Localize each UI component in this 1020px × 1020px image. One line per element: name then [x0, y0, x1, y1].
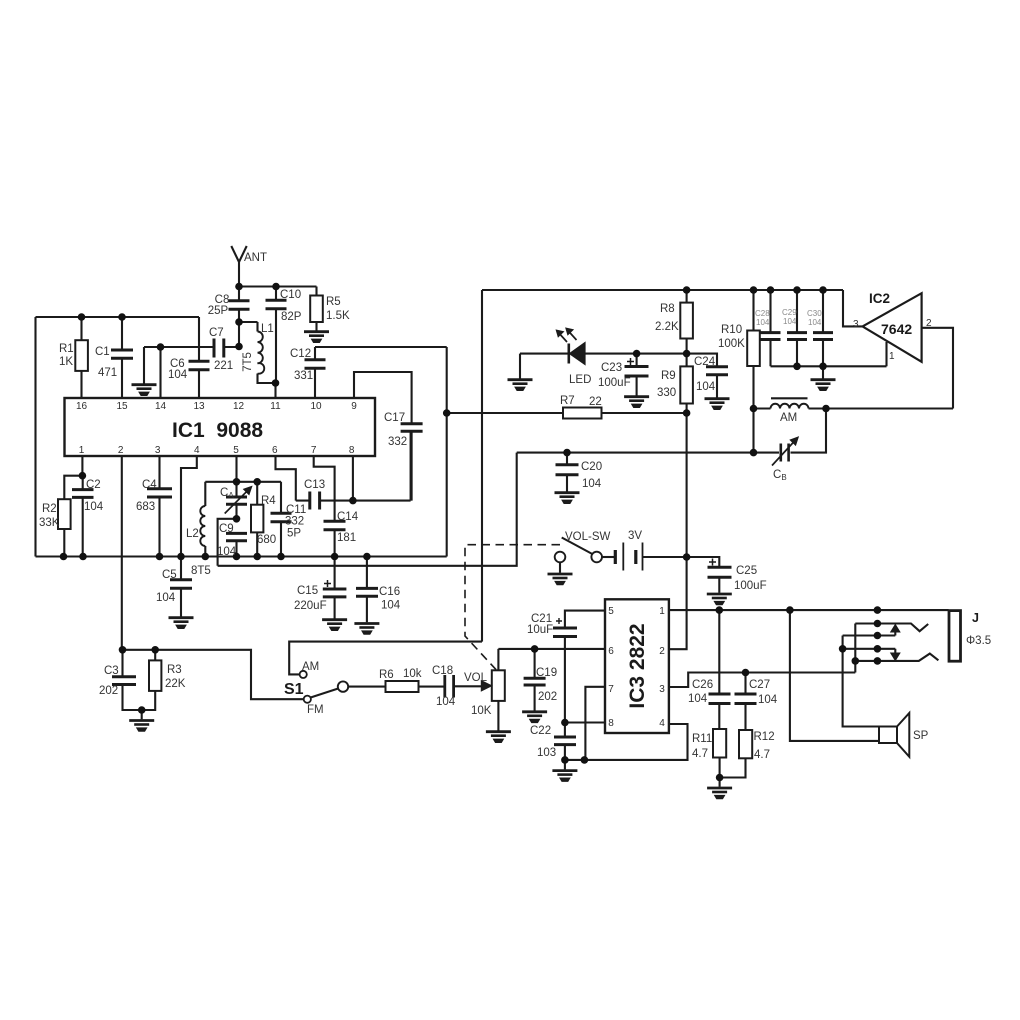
ground VOL pot [486, 732, 511, 743]
svg-text:7T5: 7T5 [242, 352, 254, 372]
svg-text:C17: C17 [384, 412, 405, 424]
switch S1 [300, 671, 349, 703]
potentiometer VOL [492, 649, 505, 731]
svg-text:C4: C4 [142, 479, 157, 491]
ground C19 [522, 712, 547, 723]
svg-text:3V: 3V [628, 530, 642, 542]
svg-text:3: 3 [659, 684, 665, 695]
wire jack rows3+4 common down to speaker [843, 636, 879, 727]
svg-text:14: 14 [155, 401, 167, 412]
wire IC1 bottom rail y=556.5 [36, 555, 447, 557]
capacitor C27 [735, 673, 757, 731]
svg-text:104: 104 [808, 318, 822, 327]
capacitor C5 [170, 557, 192, 617]
resistor R5 [310, 287, 323, 331]
svg-text:104: 104 [156, 592, 176, 604]
capacitor C23 electrolytic [625, 354, 649, 396]
capacitor C18 [445, 675, 454, 698]
svg-text:104: 104 [688, 693, 708, 705]
svg-text:R4: R4 [261, 495, 276, 507]
svg-text:C19: C19 [536, 667, 557, 679]
wire VOL-SW ground contact [559, 562, 561, 573]
resistor R8 [680, 290, 693, 354]
svg-text:82P: 82P [281, 311, 302, 323]
wire LED row y=353.6 [520, 353, 687, 355]
wire C7 row y=347 [144, 346, 239, 348]
svg-text:22: 22 [589, 396, 602, 408]
svg-text:6: 6 [272, 445, 278, 456]
wire IC3 pin8 [565, 721, 605, 723]
wire ground stub left [143, 347, 145, 384]
svg-text:SP: SP [913, 730, 929, 742]
svg-text:R10: R10 [721, 324, 742, 336]
ground C24 [705, 399, 730, 410]
svg-text:330: 330 [657, 387, 676, 399]
wire pin8 [352, 456, 354, 501]
plus C21 [556, 618, 562, 624]
svg-text:R5: R5 [326, 296, 341, 308]
wire top-left rail y=317 [36, 316, 200, 318]
svg-text:C24: C24 [694, 356, 716, 368]
svg-text:R8: R8 [660, 303, 675, 315]
capacitor C9 [226, 533, 247, 540]
capacitor C29 [787, 290, 807, 366]
svg-text:10K: 10K [471, 705, 492, 717]
wire IC3 pin1 output rail y=610.1 [669, 609, 949, 611]
svg-text:R3: R3 [167, 664, 182, 676]
svg-text:VOL-SW: VOL-SW [565, 531, 611, 543]
wire AM coil row y=408.5 [754, 407, 954, 409]
wire pin9 up and over to C17 [354, 372, 412, 424]
svg-text:100K: 100K [718, 338, 745, 350]
wire pin1 node to R2 [64, 476, 82, 500]
capacitor C10 [266, 287, 287, 384]
svg-text:4.7: 4.7 [692, 748, 708, 760]
wire C9 bypass loop [218, 453, 517, 566]
wire supply node to C25 [687, 557, 720, 567]
capacitor C16 [356, 557, 378, 623]
wire AM select y=641.6 [289, 642, 482, 675]
svg-text:R7: R7 [560, 395, 575, 407]
svg-text:100uF: 100uF [734, 580, 767, 592]
wire jack row3 contact with break arrow up [843, 625, 900, 636]
svg-text:1: 1 [659, 606, 665, 617]
ground R5 [304, 332, 329, 343]
svg-text:104: 104 [696, 381, 716, 393]
svg-text:C29: C29 [782, 308, 797, 317]
svg-text:ANT: ANT [244, 252, 267, 264]
svg-text:1.5K: 1.5K [326, 310, 350, 322]
wire AGC row y=413 [447, 412, 687, 414]
svg-text:104: 104 [381, 600, 401, 612]
svg-text:C13: C13 [304, 479, 325, 491]
wire C13 row to C17 column [353, 431, 411, 500]
ground C25 [707, 594, 732, 605]
svg-text:221: 221 [214, 360, 233, 372]
resistor R9 [680, 354, 693, 413]
svg-text:22K: 22K [165, 678, 186, 690]
svg-text:R12: R12 [754, 731, 775, 743]
wire R6 to C18 [419, 686, 445, 688]
LED D1 [556, 328, 585, 365]
resistor R10 [747, 290, 760, 409]
svg-text:IC2: IC2 [869, 291, 890, 306]
svg-text:AM: AM [780, 412, 797, 424]
svg-text:C16: C16 [379, 586, 400, 598]
capacitor C28 [761, 290, 781, 366]
wire IC2 pin1 [885, 342, 887, 366]
wire supply drop x=482 to AM switch wire [481, 290, 483, 642]
ground C3/R3 [129, 710, 154, 731]
wire C18 to VOL wiper arrow [454, 681, 492, 691]
svg-text:8: 8 [608, 718, 614, 729]
svg-text:2.2K: 2.2K [655, 321, 679, 333]
svg-text:11: 11 [270, 401, 281, 412]
resistor R6 [386, 681, 419, 692]
ground LED [508, 380, 533, 391]
wire top supply rail y=290 [482, 289, 843, 291]
capacitor C20 [556, 453, 579, 492]
svg-text:C9: C9 [219, 523, 234, 535]
ground C22 [552, 760, 577, 782]
svg-text:R2: R2 [42, 503, 57, 515]
wire CB row y=452.6 [517, 409, 826, 453]
svg-text:181: 181 [337, 532, 356, 544]
wire pin7 route [314, 456, 335, 521]
ground VOL-SW [548, 574, 573, 585]
ground C5 [169, 618, 194, 629]
inductor L2 [200, 482, 205, 557]
capacitor C25 electrolytic [708, 559, 732, 593]
wire speaker return from output rail [790, 610, 879, 741]
capacitor C8 [229, 287, 250, 323]
svg-text:VOL: VOL [464, 672, 488, 684]
wire VOL top to IC3 pin6 [498, 648, 605, 650]
wire IC2 bypass bottom rail y=366.3 [771, 365, 887, 367]
svg-text:C2: C2 [86, 479, 101, 491]
resistor R12 [720, 730, 753, 778]
wire jack row4 contact with break arrow down [843, 649, 900, 661]
svg-text:FM: FM [307, 704, 324, 716]
svg-text:4.7: 4.7 [754, 749, 770, 761]
svg-text:104: 104 [84, 501, 104, 513]
wire pin6 route [276, 456, 296, 501]
svg-text:103: 103 [537, 747, 556, 759]
ground C7 node [132, 385, 157, 396]
svg-text:683: 683 [136, 501, 155, 513]
wire S1 to R6 [348, 686, 385, 688]
capacitor C2 [72, 476, 94, 557]
svg-text:C1: C1 [95, 346, 110, 358]
svg-text:104: 104 [217, 546, 237, 558]
svg-text:5: 5 [233, 445, 239, 456]
svg-text:471: 471 [98, 367, 117, 379]
inductor AM coil with core [771, 398, 809, 408]
wire IC3 pin7 down [585, 687, 605, 760]
svg-text:202: 202 [99, 685, 118, 697]
svg-text:C22: C22 [530, 725, 551, 737]
resistor R3 [142, 650, 162, 710]
svg-text:IC1 9088: IC1 9088 [172, 419, 263, 442]
svg-text:7: 7 [311, 445, 317, 456]
svg-text:7: 7 [608, 684, 614, 695]
resistor R1 [75, 317, 88, 398]
capacitor C26 [709, 610, 731, 729]
svg-text:4: 4 [194, 445, 200, 456]
svg-text:8: 8 [349, 445, 355, 456]
svg-text:8T5: 8T5 [191, 565, 211, 577]
wire pin1 [81, 456, 83, 476]
svg-text:C15: C15 [297, 585, 318, 597]
svg-text:C26: C26 [692, 679, 713, 691]
capacitor C13 [296, 492, 353, 510]
svg-text:IC3 2822: IC3 2822 [626, 623, 649, 708]
svg-text:C20: C20 [581, 461, 602, 473]
svg-text:AM: AM [302, 661, 319, 673]
svg-text:104: 104 [783, 317, 797, 326]
dashed mechanical link VOL-SW to VOL pot [465, 545, 560, 670]
capacitor C3 [112, 650, 142, 710]
wire IC3 pin5 to C21 [565, 611, 605, 628]
svg-text:R9: R9 [661, 370, 676, 382]
capacitor C1 [111, 317, 133, 398]
svg-text:C14: C14 [337, 511, 359, 523]
svg-text:104: 104 [168, 369, 188, 381]
svg-text:C10: C10 [280, 289, 301, 301]
svg-text:2: 2 [118, 445, 124, 456]
wire battery plus to supply node [643, 556, 687, 558]
inductor L1 [258, 322, 276, 383]
wire C8 junction down to C7 node [238, 322, 240, 347]
capacitor C15 [323, 557, 347, 619]
wire C12 top to x=446.7 [315, 346, 447, 348]
wire signal ground bus y=759.9 [565, 724, 688, 760]
svg-text:9: 9 [351, 401, 357, 412]
svg-text:L1: L1 [261, 323, 274, 335]
svg-text:1K: 1K [59, 356, 73, 368]
svg-text:C18: C18 [432, 665, 453, 677]
capacitor C14 [324, 521, 346, 556]
svg-text:331: 331 [294, 370, 313, 382]
svg-text:R11: R11 [692, 733, 712, 745]
svg-text:10uF: 10uF [527, 624, 553, 636]
capacitor C30 [813, 290, 833, 366]
capacitor C19 [524, 649, 546, 711]
ground IC2 caps [811, 366, 836, 390]
svg-text:1: 1 [889, 351, 895, 362]
svg-text:5: 5 [608, 606, 614, 617]
svg-text:C30: C30 [807, 309, 822, 318]
wire jack row5 contact [854, 654, 938, 661]
svg-text:13: 13 [193, 401, 205, 412]
resistor R11 [713, 729, 726, 778]
svg-text:10k: 10k [403, 668, 422, 680]
svg-text:25P: 25P [208, 305, 229, 317]
svg-text:C28: C28 [755, 309, 770, 318]
svg-text:3: 3 [155, 445, 161, 456]
wire pin11 [274, 383, 276, 398]
wire pin4 route [181, 456, 197, 557]
svg-text:C25: C25 [736, 565, 757, 577]
ground C20 [555, 493, 580, 504]
plus C15 [324, 580, 331, 587]
wire switch to battery [602, 556, 615, 558]
wire jack rows2+5 common down to pin3 bus [854, 624, 856, 673]
wire R10 bottom to CB node [752, 409, 754, 453]
resistor R2 [58, 499, 71, 556]
resistor R7 [563, 408, 602, 419]
capacitor C21 electrolytic [553, 628, 577, 723]
svg-text:R1: R1 [59, 343, 74, 355]
svg-text:332: 332 [388, 436, 407, 448]
capacitor C6 on pin13 column [189, 317, 210, 398]
variable capacitor CB [772, 437, 798, 466]
svg-text:6: 6 [608, 646, 614, 657]
wire left vertical x=35.5 [34, 317, 36, 557]
svg-text:2: 2 [659, 646, 665, 657]
svg-text:100uF: 100uF [598, 377, 631, 389]
wire x=446.7 vertical [446, 347, 448, 557]
wire pin5 column [235, 456, 237, 557]
wire R9 column down to battery node and IC3 pin2 [669, 413, 687, 649]
wire tank top rail y=481.8 [205, 481, 281, 483]
svg-text:1: 1 [79, 445, 85, 456]
ground R11/R12 [707, 778, 732, 799]
svg-text:10: 10 [310, 401, 322, 412]
capacitor C24 [687, 354, 728, 398]
svg-text:C12: C12 [290, 348, 311, 360]
wire C8 to L1 top [239, 321, 258, 323]
svg-text:104: 104 [436, 696, 456, 708]
svg-text:220uF: 220uF [294, 600, 327, 612]
svg-text:202: 202 [538, 691, 557, 703]
speaker SP [879, 713, 909, 757]
svg-text:R6: R6 [379, 669, 394, 681]
IC1 9088 body [65, 398, 376, 456]
svg-text:33K: 33K [39, 517, 60, 529]
svg-text:J: J [972, 611, 979, 625]
antenna ANT [231, 246, 246, 287]
wire pin2 column [121, 456, 123, 650]
svg-text:104: 104 [758, 694, 778, 706]
svg-text:S1: S1 [284, 681, 304, 698]
svg-text:Φ3.5: Φ3.5 [966, 635, 991, 647]
wire LED cathode to ground [519, 354, 521, 379]
capacitor C12 [305, 347, 326, 398]
svg-text:104: 104 [582, 478, 602, 490]
resistor R4 [251, 482, 263, 557]
ground C16 [354, 624, 379, 635]
ground C23 [624, 397, 649, 408]
svg-text:7642: 7642 [881, 321, 912, 337]
wire antenna rail y=286.5 [239, 285, 317, 287]
svg-text:C3: C3 [104, 665, 119, 677]
IC3 2822 body [605, 599, 669, 733]
svg-text:3: 3 [853, 319, 859, 330]
svg-text:2: 2 [926, 318, 932, 329]
wire C3 node row y=649.8 [123, 650, 304, 699]
svg-text:C5: C5 [162, 569, 177, 581]
svg-text:680: 680 [257, 534, 276, 546]
op-amp IC2 7642 [863, 293, 922, 362]
capacitor C11 [271, 482, 292, 557]
svg-text:332: 332 [285, 516, 304, 528]
capacitor C7 [214, 339, 224, 358]
capacitor C17 [401, 424, 423, 501]
wire IC2 pin3 input [843, 290, 862, 326]
wire IC2 pin2 output route [922, 328, 953, 409]
svg-text:15: 15 [116, 401, 128, 412]
wire jack row2 contact [855, 624, 928, 632]
svg-text:LED: LED [569, 374, 591, 386]
svg-text:16: 16 [76, 401, 88, 412]
svg-text:C11: C11 [286, 504, 306, 516]
svg-text:5P: 5P [287, 528, 301, 540]
ground C15 [322, 620, 347, 631]
svg-text:C23: C23 [601, 362, 622, 374]
svg-text:C7: C7 [209, 327, 224, 339]
switch VOL-SW [555, 538, 602, 563]
wire pin14 [159, 347, 161, 398]
variable capacitor CA [225, 486, 252, 513]
svg-text:C27: C27 [749, 679, 770, 691]
capacitor C22 [554, 723, 576, 760]
svg-text:12: 12 [233, 401, 245, 412]
headphone jack J body [949, 611, 961, 662]
svg-text:104: 104 [756, 318, 770, 327]
svg-text:L2: L2 [186, 528, 199, 540]
svg-text:4: 4 [659, 718, 665, 729]
wire IC3 pin3 to jack [669, 673, 855, 688]
battery 3V [615, 543, 642, 571]
capacitor C4 on pin3 column [147, 456, 172, 557]
